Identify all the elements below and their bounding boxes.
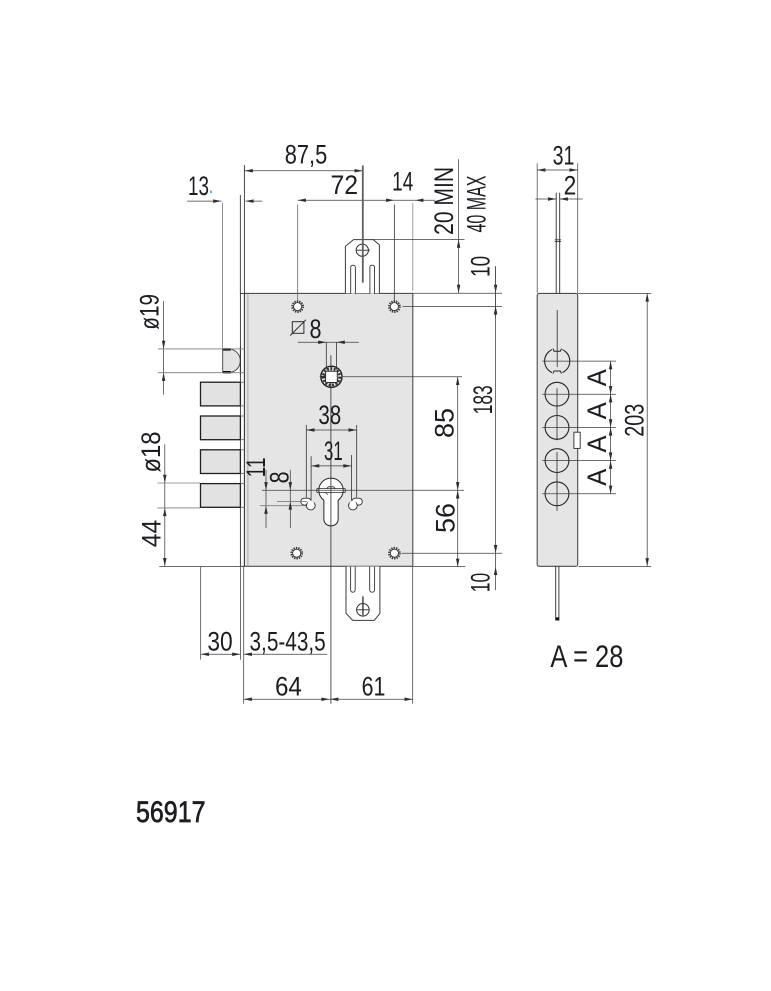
svg-text:44: 44 [136, 520, 166, 548]
svg-text:ø18: ø18 [136, 432, 166, 473]
cylinder screw slot right [349, 498, 363, 510]
dimension 31 (cylinder screws) [311, 436, 351, 501]
bottom mounting strap [346, 567, 380, 621]
side edge notch [574, 432, 580, 448]
dimension 3,5-43,5 [244, 626, 328, 656]
svg-text:A: A [582, 402, 612, 419]
svg-text:20 MIN: 20 MIN [429, 167, 459, 235]
svg-text:3,5-43,5: 3,5-43,5 [250, 626, 326, 656]
svg-text:203: 203 [620, 404, 650, 437]
dimension 31 (side) [537, 141, 578, 172]
strap centre extension line [362, 166, 364, 283]
dimension 20 MIN / 40 MAX [373, 159, 492, 293]
svg-text:64: 64 [275, 671, 302, 701]
dimension 2 (strap thickness) [535, 171, 582, 201]
svg-text:31: 31 [324, 436, 343, 466]
fixing hole bottom-left [291, 548, 302, 559]
dimension 61 [330, 671, 413, 701]
side vertical centrelines [556, 310, 558, 511]
svg-text:10: 10 [466, 573, 496, 593]
svg-text:30: 30 [207, 626, 232, 656]
svg-text:31: 31 [553, 141, 575, 171]
svg-text:10: 10 [466, 256, 496, 277]
svg-text:ø19: ø19 [134, 294, 164, 330]
svg-text:87,5: 87,5 [285, 140, 328, 170]
side hole circles 2-5 [545, 382, 569, 406]
side horizontal centrelines [542, 361, 616, 494]
top strap (side view) [555, 193, 561, 294]
svg-text:183: 183 [468, 385, 498, 414]
svg-text:61: 61 [362, 671, 386, 701]
cylinder centreline horizontal [262, 489, 464, 491]
dimension 72 [298, 170, 395, 301]
dimension 30 [201, 626, 241, 656]
fixing hole bottom-right [389, 548, 400, 559]
spindle hub (square follower) [321, 366, 342, 387]
deadbolt 4 [201, 484, 241, 508]
euro cylinder hole [317, 478, 345, 526]
dimension o18 and 44 [136, 432, 244, 567]
svg-text:A = 28: A = 28 [550, 638, 623, 674]
dimension 8 (cylinder) [265, 470, 308, 528]
dimension 11 [241, 457, 306, 528]
svg-text:38: 38 [318, 400, 341, 430]
top mounting strap [345, 240, 379, 294]
svg-text:40 MAX: 40 MAX [462, 176, 492, 233]
dimension 85 and 56 [430, 377, 461, 567]
faceplate (front view edge) [240, 293, 244, 566]
svg-text:8: 8 [265, 471, 295, 483]
hub centrelines [319, 355, 462, 704]
bottom strap (side view) [556, 566, 560, 620]
side strip extension lines to 31 dim [536, 163, 538, 293]
svg-text:56: 56 [431, 503, 461, 533]
side faceplate strip [537, 293, 578, 566]
side latch circle (with notches) [545, 348, 570, 375]
svg-text:2: 2 [564, 171, 577, 201]
dimension 183 and 10 (bottom) [402, 266, 503, 592]
bottom extension lines [201, 567, 413, 704]
svg-text:A: A [582, 436, 612, 453]
dimension 87,5 [244, 140, 362, 294]
dimension 13 [187, 171, 262, 349]
deadbolt 1 [201, 382, 241, 406]
lock body [244, 293, 412, 566]
svg-text:85: 85 [430, 408, 460, 438]
dimension A chain [582, 361, 613, 494]
bolt hidden edges through faceplate [240, 381, 244, 383]
latch bolt (D-shape) [223, 347, 241, 376]
dimension 64 [244, 671, 413, 701]
dimension 10 (top) [403, 256, 503, 318]
svg-text:14: 14 [392, 167, 413, 197]
svg-text:A: A [582, 469, 612, 486]
dimension 203 [578, 293, 652, 566]
hub square opening [326, 371, 338, 382]
cylinder screw slot left [301, 498, 315, 510]
dimension 14 [392, 167, 435, 202]
svg-text:A: A [582, 369, 612, 386]
dimension 38 [306, 400, 356, 498]
scan artifact dot [210, 191, 212, 194]
svg-text:13: 13 [188, 171, 209, 201]
deadbolt 3 [201, 450, 241, 474]
body right edge extension (top) [412, 203, 414, 291]
square 8 symbol and dimension [290, 314, 359, 370]
fixing hole top-left [292, 301, 303, 312]
svg-text:56917: 56917 [136, 796, 206, 829]
deadbolt 2 [201, 416, 241, 440]
svg-text:72: 72 [331, 170, 359, 200]
dimension o19 [134, 294, 244, 395]
svg-text:8: 8 [310, 314, 322, 344]
fixing hole top-right [389, 301, 400, 312]
